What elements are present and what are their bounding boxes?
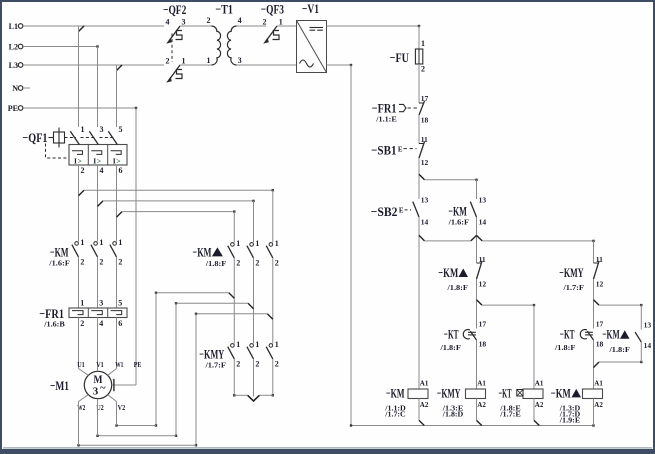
svg-text:/1.8:F: /1.8:F (446, 284, 468, 292)
svg-text:5: 5 (119, 125, 123, 134)
svg-text:>: > (78, 156, 82, 165)
contactor KM main contacts (48, 238, 122, 267)
transformer T1 primary winding pins 2-1 (207, 2, 234, 66)
breaker QF2 (163, 2, 186, 82)
wire L1 horizontal to QF2 (23, 25, 164, 27)
svg-text:12: 12 (596, 280, 604, 289)
svg-text:1: 1 (80, 299, 84, 308)
breaker QF3 (261, 2, 285, 44)
svg-text:/1.8:F: /1.8:F (205, 260, 227, 268)
svg-text:1: 1 (236, 340, 240, 349)
svg-text:~: ~ (100, 383, 106, 394)
svg-text:12: 12 (479, 280, 487, 289)
wire delta loop2 to motor U2 (175, 302, 177, 304)
thermal contact FR1 17-18 (372, 94, 429, 124)
motor breaker QF1 (23, 125, 128, 175)
svg-text:A1: A1 (535, 379, 544, 387)
svg-text:13: 13 (421, 196, 429, 205)
svg-text:−KM: −KM (50, 244, 69, 259)
svg-text:11: 11 (421, 135, 428, 144)
wire merge rail (425, 240, 471, 242)
coil KT A1-A2 timer (499, 379, 544, 418)
svg-text:V1: V1 (96, 360, 104, 369)
rectifier V1 (297, 1, 327, 72)
svg-text:2: 2 (99, 257, 103, 266)
wire V1 positive output to FU rail (327, 25, 420, 27)
contactor KM-delta power contacts (193, 239, 279, 268)
svg-text:L2: L2 (9, 43, 18, 52)
svg-text:−QF3: −QF3 (261, 2, 285, 17)
wire KM-delta pole1 down, junction to loop1 (233, 258, 235, 344)
wire delta loop3 to motor W2 (195, 313, 197, 315)
junction L3 to QF1 pole 5 (117, 65, 123, 71)
junction merge left (419, 235, 425, 241)
wire FR1 to motor (78, 318, 80, 369)
svg-text:−KM: −KM (602, 327, 620, 342)
svg-text:L1: L1 (9, 22, 18, 31)
wire KM-delta pole2 down, junction to loop2 (253, 258, 255, 344)
svg-text:−KM: −KM (193, 244, 212, 259)
junction QF1 pole2 to delta bus 1 (79, 190, 85, 196)
svg-text:−FU: −FU (390, 50, 410, 65)
svg-text:2: 2 (166, 56, 170, 65)
svg-text:18: 18 (421, 115, 429, 124)
wire N stub (23, 87, 30, 89)
svg-text:1: 1 (207, 56, 211, 65)
svg-text:−KM: −KM (438, 265, 458, 280)
wire T1 secondary bottom to V1 (237, 64, 297, 66)
svg-text:13: 13 (644, 321, 652, 330)
svg-text:/1.7:F: /1.7:F (562, 284, 584, 292)
svg-text:4: 4 (99, 319, 103, 328)
svg-text:−QF1: −QF1 (23, 130, 48, 145)
svg-text:2: 2 (207, 16, 211, 25)
svg-text:>: > (97, 156, 101, 165)
wire T1 secondary top to QF3 (237, 25, 267, 27)
svg-text:2: 2 (80, 257, 84, 266)
svg-text:PE: PE (134, 360, 142, 369)
wire FU to FR1 contact (418, 64, 420, 103)
contactor KMY star contacts (199, 340, 278, 370)
svg-text:−V1: −V1 (302, 1, 319, 16)
node L1 supply terminal (9, 22, 23, 31)
node N supply terminal (12, 84, 23, 93)
svg-text:−FR1: −FR1 (39, 306, 64, 321)
svg-text:2: 2 (263, 17, 267, 26)
svg-text:−KT: −KT (499, 385, 512, 400)
svg-text:6: 6 (118, 319, 122, 328)
svg-text:E: E (398, 145, 403, 153)
motor M1 (50, 360, 141, 412)
svg-text:1: 1 (255, 239, 259, 248)
svg-text:/1.9:E: /1.9:E (559, 417, 581, 424)
svg-text:−M1: −M1 (50, 378, 69, 393)
timer KT delayed contact 17-18 left (439, 320, 486, 352)
wire PE down to motor (23, 107, 136, 109)
svg-text:−KM: −KM (386, 385, 405, 400)
svg-text:/1.6:F: /1.6:F (447, 219, 469, 227)
svg-text:A1: A1 (420, 379, 429, 387)
junction coil drop at x=419.0 (418, 399, 420, 421)
contactor KM auxiliary contact 13-14 (447, 196, 486, 227)
wire KT left to KMY coil (476, 340, 478, 389)
svg-text:I: I (113, 156, 116, 165)
contactor KM-delta NO contact 13-14 (602, 321, 651, 354)
svg-text:−SB2: −SB2 (371, 204, 398, 219)
svg-text:2: 2 (80, 319, 84, 328)
wire FR1 to SB1 (418, 115, 420, 144)
svg-text:−KM: −KM (551, 385, 571, 400)
svg-text:1: 1 (275, 340, 279, 349)
svg-text:1: 1 (421, 39, 425, 48)
svg-text:12: 12 (421, 158, 429, 167)
svg-text:A1: A1 (594, 379, 603, 387)
wire delta loop1 to motor V2 (155, 292, 157, 294)
svg-text:−KT: −KT (444, 327, 459, 342)
coil KMY A1-A2 (437, 379, 486, 418)
svg-text:/1.8:F: /1.8:F (608, 346, 630, 354)
svg-text:2: 2 (118, 257, 122, 266)
svg-text:/1.7:F: /1.7:F (204, 362, 226, 370)
svg-text:1: 1 (80, 238, 84, 247)
wire L3 horizontal to QF2 lower pole (23, 64, 164, 66)
svg-text:5: 5 (118, 299, 122, 308)
svg-text:/1.8:D: /1.8:D (442, 412, 464, 419)
svg-text:I: I (93, 156, 96, 165)
pushbutton SB1 11-12 (371, 135, 428, 167)
svg-text:2: 2 (275, 359, 279, 368)
junction coil drop at x=476.5 (476, 399, 478, 421)
wire QF3 to V1 (277, 25, 297, 27)
svg-text:−KMY: −KMY (559, 265, 584, 280)
svg-text:4: 4 (238, 16, 242, 25)
svg-text:/1.6:B: /1.6:B (43, 321, 65, 329)
svg-text:−KMY: −KMY (199, 346, 224, 361)
svg-text:W1: W1 (115, 360, 123, 369)
svg-text:/1.6:F: /1.6:F (48, 259, 70, 267)
svg-text:3: 3 (100, 125, 104, 134)
svg-text:2: 2 (236, 258, 240, 267)
svg-text:2: 2 (275, 258, 279, 267)
node L2 supply terminal (9, 43, 23, 52)
svg-text:/1.7:C: /1.7:C (384, 412, 406, 419)
svg-text:PE: PE (8, 104, 18, 113)
svg-text:/1.8:F: /1.8:F (439, 344, 461, 352)
junction branch to KM aux (419, 174, 425, 180)
svg-text:−KT: −KT (560, 327, 575, 342)
svg-text:1: 1 (118, 238, 122, 247)
wire QF2 top pole to T1 (180, 25, 212, 27)
wire V1 negative output long rail (327, 64, 352, 66)
timer KT delayed contact 17-18 right (554, 320, 604, 352)
junction L1 to QF1 pole 1 (79, 26, 85, 32)
svg-text:I: I (74, 156, 77, 165)
wire branch1 down, junction to KT coil feed (476, 279, 478, 329)
svg-text:3: 3 (238, 56, 242, 65)
svg-text:N: N (12, 84, 18, 93)
svg-text:2: 2 (81, 166, 85, 175)
svg-text:2: 2 (255, 359, 259, 368)
svg-text:>: > (116, 156, 120, 165)
wire QF1 outputs down to KM (78, 165, 80, 242)
svg-text:−SB1: −SB1 (371, 143, 396, 158)
svg-text:/1.8:F: /1.8:F (554, 344, 576, 352)
svg-text:2: 2 (255, 258, 259, 267)
wire QF2 lower pole to T1 primary bottom (180, 64, 212, 66)
svg-text:4: 4 (100, 166, 104, 175)
svg-text:−T1: −T1 (215, 2, 233, 17)
wire negative rail bottom (351, 425, 594, 427)
svg-text:A2: A2 (535, 401, 544, 409)
svg-text:1: 1 (236, 239, 240, 248)
svg-text:1: 1 (81, 125, 85, 134)
contactor KM-delta NC contact 11-12 (438, 255, 486, 292)
svg-text:3: 3 (93, 386, 99, 398)
svg-text:14: 14 (479, 217, 487, 226)
svg-text:1: 1 (99, 238, 103, 247)
contactor KMY NC contact 11-12 (559, 255, 603, 292)
svg-text:1: 1 (279, 17, 283, 26)
transformer T1 secondary winding pins 4-3 (227, 16, 241, 65)
star point chevron (248, 395, 260, 401)
wire KT right to KM-delta coil, merge (593, 340, 595, 389)
svg-text:3: 3 (182, 17, 186, 26)
svg-text:1: 1 (255, 340, 259, 349)
svg-text:2: 2 (236, 359, 240, 368)
svg-text:−QF2: −QF2 (163, 2, 186, 17)
wire KMY poles to star point (233, 359, 235, 395)
junction coil drop at x=534.0 (533, 399, 535, 421)
wire SB1 down (418, 158, 420, 199)
svg-text:−KM: −KM (448, 204, 467, 219)
svg-text:U1: U1 (77, 360, 85, 369)
junction QF1 pole4 to delta bus 2 (98, 201, 104, 207)
svg-text:V2: V2 (118, 403, 126, 412)
svg-text:3: 3 (99, 299, 103, 308)
svg-text:11: 11 (479, 255, 486, 264)
svg-text:A2: A2 (420, 401, 429, 409)
pushbutton SB2 13-14 (371, 196, 429, 227)
svg-text:E: E (399, 207, 404, 215)
svg-text:17: 17 (421, 94, 429, 103)
svg-text:17: 17 (479, 320, 487, 329)
wire KM-delta pole3 down, junction to loop3 (272, 258, 274, 344)
coil KM A1-A2 (384, 379, 429, 418)
svg-text:1: 1 (275, 239, 279, 248)
svg-text:4: 4 (166, 17, 170, 26)
svg-text:11: 11 (596, 255, 603, 264)
svg-text:14: 14 (421, 217, 429, 226)
wire KM to FR1 (78, 257, 80, 308)
wire KM aux down through merge (476, 217, 478, 263)
thermal relay FR1 power element (39, 299, 127, 329)
fuse FU 1-2 (390, 39, 425, 74)
wire branch2 down, junction to KM-delta NO (593, 279, 595, 329)
svg-text:13: 13 (479, 196, 487, 205)
svg-text:18: 18 (479, 340, 487, 349)
svg-text:/1.1:E: /1.1:E (375, 115, 397, 123)
svg-text:L3: L3 (9, 61, 18, 70)
junction QF1 pole6 to delta bus 3 (117, 212, 123, 218)
svg-text:A1: A1 (477, 379, 486, 387)
svg-text:1: 1 (182, 56, 186, 65)
node PE supply terminal (8, 104, 23, 113)
svg-text:14: 14 (644, 341, 652, 350)
junction merge chevron (471, 235, 477, 241)
svg-text:−KMY: −KMY (437, 385, 461, 400)
svg-text:−FR1: −FR1 (372, 101, 397, 116)
svg-text:6: 6 (119, 166, 123, 175)
wire SB2 down to KM coil (418, 217, 420, 389)
svg-text:2: 2 (421, 64, 425, 73)
coil KM-delta A1-A2 (551, 379, 604, 424)
svg-text:A2: A2 (477, 401, 486, 409)
wire L2 to QF1 pole 3 (23, 46, 98, 48)
svg-text:/1.7:E: /1.7:E (499, 412, 521, 419)
svg-text:A2: A2 (594, 401, 603, 409)
node L3 supply terminal (9, 61, 23, 70)
